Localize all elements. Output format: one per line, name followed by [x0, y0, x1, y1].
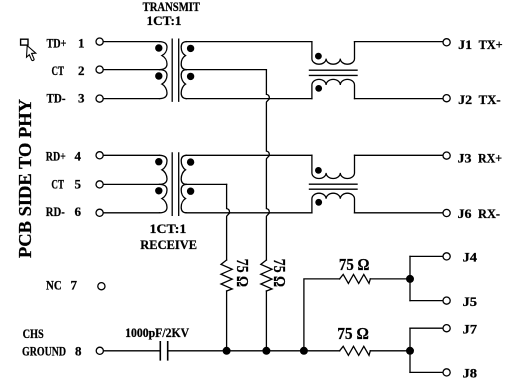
svg-text:7: 7: [71, 277, 78, 292]
wires to J4 J5: [410, 255, 443, 257]
wire TX ct down to R2 with jogs: [266, 70, 269, 260]
svg-text:3: 3: [78, 91, 85, 106]
svg-text:RD-: RD-: [46, 204, 65, 219]
ground bus wire: [168, 350, 340, 352]
transformer T1 secondary winding upper: [181, 42, 186, 70]
svg-text:CT: CT: [51, 177, 64, 192]
svg-text:J1: J1: [458, 37, 472, 52]
junction dot J4 J5: [406, 275, 414, 283]
capacitor C1 plates: [160, 342, 167, 360]
svg-text:J8: J8: [463, 366, 478, 381]
resistor R3 75 ohm horizontal: [340, 274, 371, 283]
branch vertical up to R3 row: [304, 279, 340, 351]
choke L2 dots: [315, 167, 322, 174]
svg-text:RD+: RD+: [46, 149, 66, 164]
pin circle 8 ground: [96, 347, 103, 354]
cursor icon: [21, 39, 36, 60]
svg-text:1: 1: [78, 35, 85, 50]
svg-text:1CT:1: 1CT:1: [147, 13, 182, 28]
choke L1 core: [310, 70, 358, 75]
J4 J5 vertical: [409, 256, 411, 300]
svg-text:TX+: TX+: [479, 37, 503, 52]
transformer T2 primary winding lower: [160, 184, 168, 212]
svg-text:75 Ω: 75 Ω: [339, 255, 370, 274]
svg-text:CHS: CHS: [23, 326, 44, 341]
svg-text:RX-: RX-: [478, 206, 500, 221]
wire R3 to node: [370, 278, 410, 280]
T1 core: [172, 39, 179, 101]
svg-text:J7: J7: [463, 322, 478, 337]
choke L1 bottom winding: [312, 79, 355, 98]
T2 secondary dots: [187, 158, 194, 165]
choke L1 top winding: [312, 42, 355, 65]
transformer T1 primary winding upper: [160, 42, 168, 70]
J7 J8 vertical: [409, 328, 411, 372]
resistor R2 75 ohm vertical: [261, 260, 272, 291]
wires choke L1 to J1 J2: [355, 41, 443, 43]
svg-text:J5: J5: [463, 294, 478, 309]
junction dot J7 J8: [406, 347, 414, 355]
transformer T1 primary winding lower: [160, 70, 168, 99]
wires to J7 J8: [410, 327, 443, 329]
T1 secondary wires: [186, 41, 312, 43]
svg-text:J3: J3: [458, 150, 473, 165]
T2 core: [172, 153, 179, 216]
svg-text:6: 6: [75, 204, 82, 219]
svg-text:J2: J2: [458, 92, 472, 107]
connector circles J4 J5: [443, 253, 450, 260]
svg-text:J4: J4: [463, 250, 478, 265]
svg-text:RX+: RX+: [478, 150, 502, 165]
wire R4 to node: [370, 350, 410, 352]
svg-text:TD+: TD+: [47, 35, 67, 50]
wire RX ct down to R1 with jog: [227, 184, 230, 260]
svg-text:1CT:1: 1CT:1: [150, 221, 187, 236]
choke L2 top winding: [312, 155, 355, 178]
T2 secondary wires: [186, 154, 312, 156]
choke L1 dots: [315, 53, 322, 60]
svg-text:4: 4: [75, 149, 82, 164]
junction dots on ground bus: [223, 347, 231, 355]
svg-text:TX-: TX-: [479, 92, 501, 107]
transformer T1 secondary winding lower: [181, 70, 186, 99]
svg-text:TD-: TD-: [47, 91, 66, 106]
svg-text:2: 2: [78, 63, 85, 78]
svg-text:8: 8: [75, 344, 82, 359]
svg-text:CT: CT: [52, 63, 65, 78]
svg-text:NC: NC: [46, 277, 62, 292]
connector circles J3 J6: [443, 152, 450, 159]
pin wires to transformers: [103, 41, 159, 43]
transformer T2 secondary winding lower: [181, 184, 186, 212]
T1 secondary dots: [187, 45, 194, 52]
pin circle 7 NC: [98, 283, 105, 290]
wires R1 R2 to ground bus: [226, 291, 228, 351]
choke L2 core: [310, 184, 358, 189]
pin circles 1-6: [96, 38, 103, 45]
svg-text:75 Ω: 75 Ω: [337, 324, 369, 343]
svg-text:PCB SIDE TO PHY: PCB SIDE TO PHY: [15, 99, 35, 258]
T2 primary dots: [155, 158, 162, 165]
svg-text:J6: J6: [458, 206, 473, 221]
transformer T2 secondary winding upper: [181, 155, 186, 184]
resistor R4 75 ohm horizontal in ground bus: [340, 346, 371, 355]
svg-text:75 Ω: 75 Ω: [270, 259, 289, 287]
wires choke L2 to J3 J6: [355, 154, 443, 156]
svg-text:RECEIVE: RECEIVE: [140, 237, 197, 252]
wire pin8 to capacitor: [104, 350, 161, 352]
T1 primary dots: [155, 44, 162, 51]
svg-text:1000pF/2KV: 1000pF/2KV: [125, 325, 190, 340]
resistor R1 75 ohm vertical: [221, 260, 232, 291]
svg-text:75 Ω: 75 Ω: [233, 259, 252, 287]
svg-text:5: 5: [75, 177, 82, 192]
connector circles J7 J8: [443, 325, 450, 332]
choke L2 bottom winding: [312, 193, 355, 213]
svg-text:GROUND: GROUND: [22, 344, 66, 359]
transformer T2 primary winding upper: [160, 155, 168, 184]
connector circles J1 J2: [443, 39, 450, 46]
